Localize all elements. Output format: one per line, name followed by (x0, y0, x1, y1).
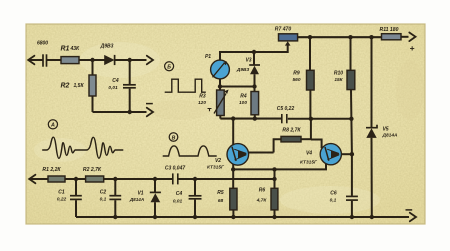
wire R1 to R2 (65, 178, 86, 180)
svg-text:R2 2,7К: R2 2,7К (83, 167, 102, 173)
node label A (circled) (48, 120, 57, 129)
node C2 top (113, 177, 117, 181)
transistor V4 КТ315Г (300, 144, 341, 166)
svg-text:V3: V3 (245, 58, 251, 64)
node R9 top (308, 35, 312, 39)
meter P1 (205, 54, 229, 79)
svg-text:R3: R3 (199, 94, 206, 100)
input arrow left (main) (29, 175, 48, 184)
node R5 bottom (231, 215, 235, 219)
svg-text:С4: С4 (112, 78, 119, 84)
capacitor C4 0,01 (top-left) (108, 60, 135, 112)
transistor V2 КТ315Г (207, 144, 249, 171)
node C4 top (top-left) (128, 58, 132, 62)
svg-text:6800: 6800 (37, 41, 48, 47)
svg-text:R9: R9 (293, 71, 300, 77)
wire bottom (top-left fragment) to output arrow (93, 108, 154, 117)
svg-text:R8 2,7К: R8 2,7К (282, 128, 301, 134)
node R4 bottom (253, 116, 257, 120)
wire V2 right lead to R8 (248, 152, 273, 154)
capacitor 6800 (37, 41, 61, 67)
svg-text:С6: С6 (330, 191, 337, 197)
resistor R10 15K (334, 37, 355, 119)
wire to V4 base (311, 140, 322, 149)
svg-text:Д9В3: Д9В3 (100, 44, 114, 50)
diode V3 Д9В3 (236, 52, 260, 87)
capacitor C2 0,1 (100, 179, 122, 217)
svg-text:Б: Б (167, 65, 171, 71)
svg-text:С4: С4 (176, 191, 183, 197)
svg-text:0,1: 0,1 (100, 197, 107, 203)
svg-text:Д9В3: Д9В3 (236, 67, 250, 73)
node C1 top (74, 177, 78, 181)
node C6 bottom (350, 215, 354, 219)
svg-text:68: 68 (218, 198, 224, 204)
potentiometer R7 470 (275, 27, 298, 46)
wire meter bottom (219, 79, 221, 87)
node C4 bottom (128, 110, 132, 114)
svg-text:КТ315Г: КТ315Г (207, 165, 225, 171)
wire V2 collector to R3/R4 rail (232, 119, 234, 146)
node R10 top (348, 35, 352, 39)
svg-text:R4: R4 (240, 94, 247, 100)
wire C5 to R10 column (288, 118, 352, 120)
svg-text:С2: С2 (100, 190, 107, 196)
wire meter top to R7 wiper (220, 45, 288, 60)
wire V4 collector to R10 column (341, 153, 352, 155)
svg-text:0,1: 0,1 (330, 198, 337, 204)
svg-text:R1 2,2К: R1 2,2К (42, 167, 61, 173)
svg-text:А: А (50, 123, 55, 129)
waveform A damped bursts (42, 137, 123, 158)
node label Б (circled) (165, 62, 174, 71)
node V4 collector / R10 column (350, 152, 354, 156)
svg-text:R5: R5 (217, 190, 224, 196)
svg-text:С1: С1 (58, 190, 65, 196)
svg-text:1,5К: 1,5К (74, 83, 85, 89)
node R6 top on emitter rail (272, 167, 276, 171)
wire R1 to diode (79, 59, 105, 61)
node R1/R2 junction (90, 58, 94, 62)
svg-text:С5 0,22: С5 0,22 (277, 106, 295, 112)
svg-text:R1: R1 (61, 45, 70, 52)
svg-text:+: + (410, 43, 415, 53)
node base wire end at R6 column (272, 177, 276, 181)
wire emitter rail V2 to V4 (233, 164, 326, 170)
node C5 wire end at R10 column (349, 117, 353, 121)
svg-text:R10: R10 (334, 71, 343, 77)
node V1 bottom (153, 215, 157, 219)
svg-text:0,22: 0,22 (57, 197, 67, 203)
input arrow left (top-left fragment) (28, 56, 43, 65)
resistor R6 4,7K (256, 169, 278, 217)
minus mark bottom right (406, 209, 413, 211)
svg-text:43К: 43К (70, 46, 81, 52)
resistor R1 43K (top-left) (61, 45, 81, 63)
svg-text:Р1: Р1 (205, 54, 211, 60)
zener diode V5 Д814А (366, 37, 398, 217)
resistor R2 1,5K (top-left) (61, 60, 97, 112)
wire V2 bottom lead (232, 164, 234, 169)
svg-text:560: 560 (292, 77, 300, 83)
capacitor C3 0,047 (165, 166, 186, 185)
wire R2 to C3 (104, 178, 173, 180)
node meter bottom (218, 84, 222, 88)
svg-text:Д814А: Д814А (129, 197, 144, 202)
wire top rail R7 to R11 (298, 36, 382, 38)
node V5 top (369, 35, 373, 39)
node C4 branch (193, 177, 197, 181)
node V3 top (252, 50, 256, 54)
wire R9 column down to R8 junction (310, 119, 312, 140)
variable resistor R3 120 (198, 87, 229, 119)
wire C3 to R6 column (base wire) (178, 178, 275, 180)
diode Д9В3 (top-left) (100, 44, 115, 65)
svg-text:4,7К: 4,7К (256, 198, 268, 204)
node V2 emitter junction (231, 167, 235, 171)
svg-text:С3 0,047: С3 0,047 (165, 166, 186, 172)
svg-text:R7 470: R7 470 (275, 27, 292, 33)
capacitor C1 0,22 (57, 179, 82, 217)
node V2 collector top (231, 116, 235, 120)
wire R3/R4 bottom rail (220, 118, 281, 120)
resistor R8 2,7K (281, 128, 311, 142)
svg-text:V1: V1 (137, 191, 143, 197)
capacitor C4 0,01 (173, 179, 202, 217)
resistor R2 2,7K (83, 167, 104, 182)
waveform B square pulses (165, 79, 206, 92)
svg-text:100: 100 (239, 100, 247, 106)
node label В (circled) (169, 133, 178, 142)
capacitor C5 0,22 (277, 106, 295, 123)
svg-text:R11 180: R11 180 (380, 27, 399, 33)
node V3 bottom / R4 top (252, 84, 256, 88)
svg-text:Д814А: Д814А (382, 133, 398, 139)
node V1 top (153, 177, 157, 181)
diode V1 Д814А (129, 179, 161, 217)
node C2 bottom (113, 215, 117, 219)
svg-text:0,01: 0,01 (173, 199, 183, 205)
wire meter bottom to V3 anode column (220, 86, 255, 88)
svg-text:КТ315Г: КТ315Г (300, 160, 318, 166)
resistor R1 2,2K (42, 167, 65, 182)
svg-text:V4: V4 (306, 151, 312, 157)
wire R10 column down to C6 (350, 119, 353, 196)
wire bottom ground rail (76, 213, 416, 222)
resistor R4 100 (239, 87, 259, 119)
node C4 bottom (193, 215, 197, 219)
resistor R11 180 (380, 27, 401, 40)
resistor R5 68 (217, 169, 237, 217)
svg-text:0,01: 0,01 (108, 85, 118, 91)
svg-text:R6: R6 (259, 188, 266, 194)
wire R11 to plus output arrow (401, 33, 416, 54)
wire diode to output arrow (115, 56, 153, 65)
minus mark (146, 103, 153, 105)
wire R8 left to V2 collector wire (274, 139, 281, 152)
svg-text:120: 120 (198, 100, 206, 106)
svg-text:V5: V5 (382, 127, 388, 133)
resistor R9 560 (292, 37, 314, 119)
capacitor C6 0,1 (330, 191, 358, 217)
node V5 bottom (370, 215, 374, 219)
svg-text:В: В (172, 135, 176, 141)
svg-text:15К: 15К (334, 77, 343, 83)
node R9 column crossing (309, 117, 313, 121)
waveform V spikes (163, 146, 217, 156)
svg-text:R2: R2 (61, 82, 70, 89)
svg-text:V2: V2 (215, 158, 221, 164)
node R6 bottom (272, 215, 276, 219)
